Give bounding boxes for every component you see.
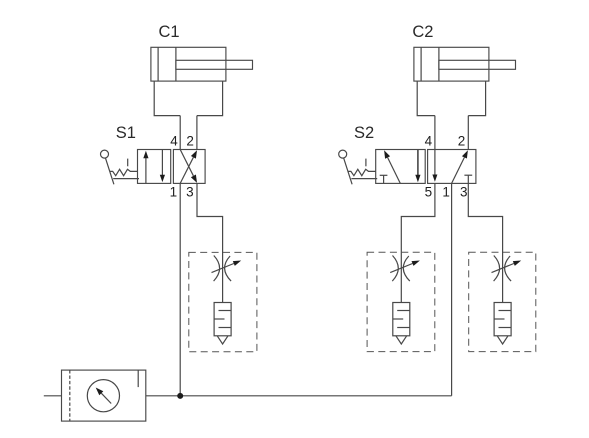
- svg-text:1: 1: [442, 185, 450, 200]
- valve S2 right position arrow 1 to 2: [452, 150, 468, 183]
- svg-text:3: 3: [186, 185, 194, 200]
- wire C2 manifold to S2 port 2: [467, 116, 469, 150]
- valve S2 port labels: [425, 134, 468, 200]
- valve S2 right position arrow 4 to 5: [432, 150, 437, 182]
- wire supply line to S2 port 1: [146, 395, 452, 397]
- wire S2 port 3 to throttle V3: [468, 183, 502, 302]
- svg-text:5: 5: [425, 185, 433, 200]
- junction node supply: [177, 393, 183, 399]
- svg-text:1: 1: [170, 185, 178, 200]
- cylinder C2: [414, 47, 516, 81]
- throttle V3 adjust arrow: [492, 261, 522, 273]
- silencer M1: [214, 303, 231, 345]
- valve S1 body (4/2 way): [138, 150, 206, 184]
- dashed enclosure V1: [189, 252, 257, 351]
- svg-text:4: 4: [425, 134, 433, 149]
- svg-text:S1: S1: [116, 124, 136, 142]
- spring S2: [348, 169, 376, 175]
- wire C2 manifold to S2 port 4: [434, 116, 436, 150]
- svg-text:4: 4: [170, 134, 178, 149]
- svg-text:C2: C2: [412, 23, 433, 41]
- wire C1 manifold to S1 port 4: [179, 116, 181, 150]
- lever actuator S2: [339, 150, 378, 184]
- valve S1 crossed arrow 4 to 3: [180, 150, 197, 183]
- wire S2 port 1 to supply line: [451, 183, 453, 395]
- cylinder C1 mounting manifold: [154, 81, 222, 116]
- valve S1 port labels: [170, 134, 194, 200]
- cylinder C2 mounting manifold: [417, 81, 485, 116]
- svg-text:S2: S2: [354, 124, 374, 142]
- dashed enclosure V2: [367, 252, 435, 351]
- throttle valve V1: [214, 256, 232, 282]
- valve S2 right position plug T: [464, 175, 472, 183]
- lever actuator S1: [101, 150, 140, 184]
- cylinder C1: [151, 47, 253, 81]
- throttle V2 adjust arrow: [390, 261, 420, 273]
- silencer M3: [494, 303, 511, 345]
- dashed enclosure V3: [469, 252, 536, 351]
- spring S1: [110, 169, 138, 175]
- wire S2 port 5 to throttle V2: [401, 183, 435, 302]
- silencer M2: [393, 303, 410, 345]
- valve S1 left position up-arrow: [143, 151, 148, 184]
- wire S1 port 3 to throttle V1: [197, 183, 223, 302]
- throttle valve V3: [494, 256, 512, 282]
- throttle V1 adjust arrow: [212, 261, 242, 273]
- air service unit Z1: [62, 370, 146, 421]
- valve S2 left position plug T: [380, 175, 388, 183]
- wire C1 manifold to S1 port 2: [196, 116, 198, 150]
- svg-text:2: 2: [458, 134, 466, 149]
- wire supply inlet stub: [44, 395, 62, 397]
- svg-text:C1: C1: [159, 23, 180, 41]
- valve S1 left position down-arrow: [160, 150, 165, 183]
- svg-text:3: 3: [460, 185, 468, 200]
- valve S2 left position down-arrow: [415, 150, 420, 183]
- pressure gauge Z1: [87, 380, 119, 412]
- valve S2 left position diagonal arrow: [384, 150, 400, 183]
- valve S2 body (5/2 way): [376, 150, 476, 184]
- wire S1 port 1 to supply junction: [179, 183, 181, 395]
- valve S1 crossed arrow 1 to 2: [180, 150, 197, 183]
- throttle valve V2: [392, 256, 410, 282]
- svg-text:2: 2: [186, 134, 194, 149]
